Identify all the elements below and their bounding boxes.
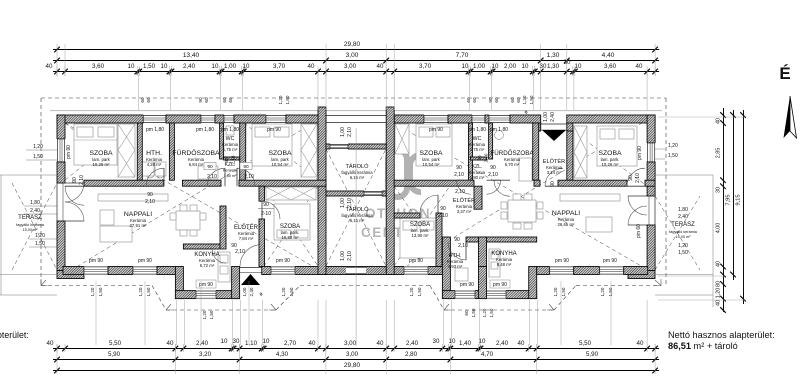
svg-text:40: 40 [716,118,722,124]
interior wall hth/furdoszoba [169,123,174,180]
svg-text:2-10: 2-10 [261,211,271,217]
svg-text:fagyálló kerámia: fagyálló kerámia [669,230,698,234]
svg-text:2,10: 2,10 [244,174,254,180]
door hth right [448,242,466,260]
svg-text:1,40: 1,40 [459,340,472,347]
svg-text:1,10: 1,10 [245,340,258,347]
svg-text:pm 90: pm 90 [267,127,281,133]
svg-text:1,50: 1,50 [209,310,214,319]
svg-text:60: 60 [204,97,209,103]
top dimension row 1 - overall 29,80 [53,49,659,51]
svg-text:3,70: 3,70 [419,63,432,70]
bathroom basins left [146,170,154,178]
svg-text:FÜRDŐSZOBA: FÜRDŐSZOBA [172,148,220,157]
svg-text:8,48 m²: 8,48 m² [497,262,512,267]
door szoba 13,90 [420,195,438,213]
svg-text:40: 40 [377,63,384,70]
svg-text:40: 40 [716,300,722,306]
svg-text:5,90: 5,90 [108,351,121,358]
svg-text:2,80: 2,80 [405,351,418,358]
svg-text:29,80: 29,80 [344,362,361,369]
bottom wall right unit [386,267,442,275]
left unit entry protrusion walls [175,267,183,299]
svg-text:2,10: 2,10 [231,155,236,164]
svg-text:40: 40 [716,261,722,267]
svg-text:1,50: 1,50 [33,154,43,160]
svg-text:1,75 m²: 1,75 m² [223,147,238,152]
svg-text:1,00: 1,00 [543,112,549,122]
svg-text:1,20: 1,20 [33,144,43,150]
terrace door right [628,196,647,215]
svg-text:pm 1,80: pm 1,80 [490,127,508,133]
svg-text:1,20: 1,20 [138,287,143,296]
terrace slab left [0,174,57,176]
svg-text:3,00: 3,00 [346,52,359,59]
svg-text:7,70: 7,70 [456,52,469,59]
svg-text:2,85: 2,85 [716,148,722,159]
wall wc/kzl [224,157,240,160]
svg-text:30: 30 [564,59,571,66]
sofa right [586,217,612,232]
svg-text:Kerámia: Kerámia [223,169,238,173]
svg-text:ELŐTÉR: ELŐTÉR [543,158,565,165]
wardrobe bedroom 2 [301,124,317,177]
svg-text:1,00: 1,00 [242,287,247,296]
svg-text:10: 10 [522,63,529,70]
svg-text:1,20: 1,20 [281,287,286,296]
svg-text:1,20: 1,20 [600,287,605,296]
svg-text:4,70: 4,70 [481,351,494,358]
svg-text:90: 90 [263,202,269,208]
svg-text:90: 90 [198,97,203,103]
svg-text:pm 1,80: pm 1,80 [196,127,214,133]
svg-text:2,10: 2,10 [484,153,489,162]
svg-text:1,80: 1,80 [30,200,40,206]
svg-text:2,10: 2,10 [145,199,155,205]
roof eave dashed outline [41,97,666,99]
svg-text:10: 10 [462,63,469,70]
svg-text:90: 90 [207,164,213,170]
svg-text:90: 90 [440,206,446,212]
roof diagonal dashes middle [326,149,386,266]
svg-text:10,54 m²: 10,54 m² [272,162,290,167]
bed bedroom right-A [416,124,452,166]
right extension lines [658,116,745,118]
svg-text:10: 10 [161,63,168,70]
door kzl south right leaf [237,168,255,186]
interior wall row1 left unit: szoba1/hth [137,123,142,180]
svg-text:2,10: 2,10 [454,172,464,178]
washer HTH right [455,268,468,281]
svg-text:2,10: 2,10 [207,174,217,180]
svg-text:90: 90 [477,155,482,161]
svg-text:90: 90 [488,97,493,103]
svg-text:10: 10 [449,338,456,345]
svg-text:2,40: 2,40 [30,208,40,214]
terrace slab right [655,174,713,176]
svg-text:1,50: 1,50 [471,308,476,317]
svg-text:1,20: 1,20 [35,233,45,239]
svg-text:1,80: 1,80 [678,207,688,213]
svg-text:FÜRDŐSZOBA: FÜRDŐSZOBA [491,150,535,157]
svg-text:26,65 m²: 26,65 m² [558,222,576,227]
svg-text:10,54 m²: 10,54 m² [423,162,441,167]
eloter right walls [474,186,482,209]
svg-text:2,40: 2,40 [183,63,196,70]
svg-text:60: 60 [516,97,521,103]
svg-text:5,70 m²: 5,70 m² [505,162,520,167]
svg-text:3,60: 3,60 [92,63,105,70]
hth/konyha walls right [466,237,537,242]
svg-text:1,80 m²: 1,80 m² [470,175,485,180]
bottom wall left unit with windows [63,267,84,275]
svg-text:1,50: 1,50 [678,250,688,256]
svg-text:40: 40 [167,340,174,347]
svg-text:1,50: 1,50 [98,287,103,296]
svg-text:40: 40 [377,340,384,347]
svg-text:40: 40 [309,340,316,347]
svg-text:NAPPALI: NAPPALI [552,210,580,217]
north arrow [784,96,791,138]
wardrobe right-A [395,124,409,154]
svg-text:7,84 m²: 7,84 m² [239,236,254,241]
bottom extension lines [175,300,177,345]
wc toilet left [226,126,234,135]
outer wall top - right unit segments [394,115,424,123]
svg-text:ELŐTÉR: ELŐTÉR [453,197,475,204]
svg-text:1,50: 1,50 [489,308,494,317]
svg-text:2,40: 2,40 [678,214,688,220]
roof diagonal dashes left unit [65,123,326,274]
svg-text:60: 60 [472,97,477,103]
svg-text:1,20: 1,20 [202,310,207,319]
svg-text:40: 40 [46,63,53,70]
svg-text:TÁROLÓ: TÁROLÓ [345,163,369,170]
svg-text:2,10: 2,10 [347,251,353,261]
svg-text:60: 60 [146,97,151,103]
svg-text:SZOBA: SZOBA [598,150,622,157]
svg-text:60: 60 [228,97,233,103]
svg-text:1,50: 1,50 [561,287,566,296]
bottom dimension row 1 [53,348,659,350]
svg-text:3,00: 3,00 [346,351,359,358]
dim boundary guides bottom [56,344,58,374]
svg-text:5,50: 5,50 [109,340,122,347]
svg-text:pm 90: pm 90 [460,282,474,288]
svg-text:6,15 m²: 6,15 m² [350,218,365,223]
svg-text:SZOBA: SZOBA [89,150,113,157]
svg-text:90: 90 [456,165,462,171]
right unit protrusion walls [442,237,450,299]
bathroom right fixtures [495,131,504,140]
corner bottom-left [57,271,84,279]
door hth left [146,168,164,186]
kitchen counter left [218,252,230,282]
entry door recess right unit [535,123,541,131]
svg-text:10: 10 [128,63,135,70]
svg-text:pm 90: pm 90 [89,258,103,264]
svg-text:2,10: 2,10 [347,198,353,208]
bottom dimension row 2 [53,359,659,361]
svg-text:13,90 m²: 13,90 m² [412,233,430,238]
svg-text:É: É [779,64,790,83]
svg-text:4,28 m²: 4,28 m² [147,162,162,167]
svg-text:30: 30 [433,338,440,345]
svg-text:4,93 m²: 4,93 m² [448,264,463,269]
svg-text:10,26 m²: 10,26 m² [602,162,620,167]
entry door arc left unit [240,245,262,267]
svg-text:5,90: 5,90 [586,351,599,358]
dining table right [508,200,536,222]
svg-text:60: 60 [466,97,471,103]
svg-text:60: 60 [494,97,499,103]
svg-text:9,15: 9,15 [736,194,742,205]
svg-text:90: 90 [147,192,153,198]
svg-text:1,20: 1,20 [553,287,558,296]
svg-text:pm 90: pm 90 [66,145,72,159]
svg-text:2,70: 2,70 [284,340,297,347]
svg-text:27,91 m²: 27,91 m² [130,223,148,228]
svg-text:2,00: 2,00 [504,63,517,70]
svg-text:4,40: 4,40 [602,52,615,59]
svg-text:1,20: 1,20 [522,95,527,104]
terrace diagonals [12,183,57,270]
svg-text:30: 30 [233,338,240,345]
svg-text:15,00 m²: 15,00 m² [23,228,39,232]
svg-text:15,00 m²: 15,00 m² [676,235,692,239]
svg-text:1,80 m²: 1,80 m² [224,174,238,178]
svg-text:3,00: 3,00 [344,63,357,70]
svg-text:2,10: 2,10 [488,172,498,178]
svg-text:1,00: 1,00 [224,63,237,70]
wardrobe bedroom 1 [118,124,135,177]
svg-text:1,20: 1,20 [678,243,688,249]
svg-text:60: 60 [222,97,227,103]
right vertical dimension line C 9,15 [743,110,745,304]
svg-text:3,37 m²: 3,37 m² [457,209,472,214]
tarolo bottom wall with door [326,267,386,275]
svg-text:fagyálló kerámia: fagyálló kerámia [16,223,45,227]
svg-text:80: 80 [716,281,722,287]
wall elotere/szoba3 vertical [259,186,265,201]
middle section walls (tarolo) [318,107,326,275]
svg-text:4,00: 4,00 [716,223,722,234]
outer wall left side with window and terrace door [57,115,65,139]
roof diagonal dashes right unit [394,123,655,274]
svg-text:1,50: 1,50 [35,241,45,247]
svg-text:pm 90: pm 90 [138,258,152,264]
svg-text:1,50: 1,50 [143,63,156,70]
svg-text:60: 60 [140,97,145,103]
svg-text:1,20: 1,20 [278,95,283,104]
svg-text:TERASZ: TERASZ [18,215,42,221]
svg-text:HTH.: HTH. [146,150,162,157]
svg-text:6,15 m²: 6,15 m² [350,175,365,180]
svg-text:1,20: 1,20 [668,143,678,149]
svg-text:1,20: 1,20 [482,308,487,317]
watermark logo OC [388,150,421,197]
svg-text:2,10: 2,10 [455,189,465,195]
svg-text:1,50: 1,50 [417,287,422,296]
bed bedroom right-C [400,218,436,258]
bed bedroom 2 [252,124,292,166]
svg-text:1,00: 1,00 [340,251,346,261]
outer wall top - left unit segments with windows [57,115,143,123]
konyha walls left [183,244,220,249]
svg-text:2,40: 2,40 [196,340,209,347]
svg-text:1,50: 1,50 [608,287,613,296]
svg-text:NAPPALI: NAPPALI [124,211,152,218]
kitchen counter right [489,249,500,277]
svg-text:1,75 m²: 1,75 m² [470,147,485,152]
svg-text:2,10: 2,10 [235,249,245,255]
svg-text:3,60: 3,60 [604,63,617,70]
svg-text:1,50: 1,50 [289,287,294,296]
svg-text:29,80: 29,80 [344,41,361,48]
mid wall right unit [394,180,474,186]
svg-text:2,10: 2,10 [635,173,641,183]
door kzl south left leaf [207,168,225,186]
svg-text:2,10: 2,10 [458,243,468,249]
top dimension row 3 [53,71,659,73]
svg-text:7,95: 7,95 [726,194,732,205]
svg-text:SZOBA: SZOBA [268,150,292,157]
svg-text:1,20: 1,20 [90,287,95,296]
svg-text:1,00: 1,00 [473,63,486,70]
svg-text:pm 1,80: pm 1,80 [468,127,486,133]
svg-text:40: 40 [47,340,54,347]
svg-text:10: 10 [221,338,228,345]
mid horizontal wall left unit [84,180,164,186]
washer HTH left [142,162,154,176]
door kzl right unit [457,180,471,194]
svg-text:2,40: 2,40 [249,287,254,296]
svg-text:10,26 m²: 10,26 m² [93,162,111,167]
svg-text:1,20: 1,20 [716,288,722,299]
svg-text:90: 90 [72,177,78,183]
top dimension row 2 [53,60,659,62]
svg-text:1,50: 1,50 [668,153,678,159]
bed bedroom 1 [74,124,117,165]
svg-text:90: 90 [490,165,496,171]
svg-text:2,40: 2,40 [550,112,556,122]
svg-text:pm 60: pm 60 [636,224,642,238]
svg-text:40: 40 [636,63,643,70]
szoba 13,90 walls [394,213,420,218]
svg-text:2,40: 2,40 [406,340,419,347]
svg-text:Nettó hasznos alapterület:: Nettó hasznos alapterület: [668,330,775,340]
door szoba right-B [627,168,645,186]
svg-text:60: 60 [464,310,469,316]
bed bedroom 3 left [274,204,310,240]
svg-text:TERASZ: TERASZ [671,222,695,228]
svg-text:pm 1,80: pm 1,80 [146,127,164,133]
bathtub left [198,166,218,179]
svg-text:1,50: 1,50 [285,95,290,104]
svg-text:90: 90 [628,175,634,181]
svg-text:pm 90: pm 90 [409,258,423,264]
svg-text:1,50: 1,50 [146,287,151,296]
svg-text:1,00: 1,00 [340,127,346,137]
door eloter right to nappali [545,168,563,186]
right vertical dimension line B 7,95 [733,110,735,280]
entrance arrow right unit [542,130,566,141]
corner bottom-right [628,271,655,279]
svg-text:ELŐTÉR: ELŐTÉR [234,224,259,231]
svg-text:10: 10 [212,63,219,70]
door furdoszoba right [494,180,510,196]
svg-text:90: 90 [243,164,249,170]
outer wall right side with window and terrace door [647,115,655,143]
svg-text:13,40: 13,40 [183,52,200,59]
svg-text:40: 40 [637,340,644,347]
svg-text:5,50: 5,50 [579,340,592,347]
svg-text:3,70: 3,70 [273,63,286,70]
entry door left unit [240,267,262,269]
svg-text:pm 1,80: pm 1,80 [221,127,239,133]
svg-text:2,40: 2,40 [496,340,509,347]
door konyha [212,249,226,263]
sideboard nappali left [98,194,168,201]
svg-text:3,00: 3,00 [344,340,357,347]
svg-text:pm 90: pm 90 [555,258,569,264]
svg-text:3,14 m²: 3,14 m² [547,170,562,175]
svg-text:1,30: 1,30 [547,63,560,70]
svg-text:2,10: 2,10 [438,213,448,219]
bottom wall szoba3 left [262,267,326,275]
svg-text:16,80 m²: 16,80 m² [282,235,300,240]
svg-text:40: 40 [518,340,525,347]
interior wall furdoszoba/wc [220,123,224,159]
svg-text:10: 10 [263,338,270,345]
svg-text:pm 90: pm 90 [429,127,443,133]
top extension lines [137,73,139,110]
dim boundary guides top [56,44,58,76]
svg-text:pm 90: pm 90 [493,282,507,288]
svg-text:pm 90: pm 90 [276,258,290,264]
svg-text:6,72 m²: 6,72 m² [200,263,215,268]
interior wall wc/szoba2 [240,123,246,180]
svg-text:10: 10 [575,63,582,70]
svg-text:90: 90 [550,181,556,187]
svg-text:SZOBA: SZOBA [419,150,443,157]
breezeway top wall lines [326,115,386,117]
svg-text:90: 90 [224,157,229,163]
terrace double door [65,183,84,202]
parapet boxed labels konyha [196,280,216,288]
sofa left [100,226,132,242]
svg-text:pm 90: pm 90 [603,258,617,264]
door szoba3 [262,201,280,219]
bottom dimension row 3 overall [53,370,659,372]
entrance arrow left unit [241,274,260,285]
svg-text:1,50: 1,50 [529,95,534,104]
wall eloter/szoba right top [567,131,573,180]
svg-text:40: 40 [308,63,315,70]
svg-text:2,10: 2,10 [347,127,353,137]
wardrobe szoba3 [266,187,316,200]
bed bedroom right-B [597,126,637,166]
eave line above top wall [50,110,662,112]
svg-text:1,30: 1,30 [547,52,560,59]
svg-text:2,10: 2,10 [79,175,85,185]
right vertical dimension line A [723,108,725,312]
wardrobe right-B [574,126,587,178]
svg-text:6,84 m²: 6,84 m² [189,162,204,167]
bottom wall nappali right with windows [537,267,550,275]
interior walls right unit row1 [469,123,473,180]
dining table left [176,211,200,230]
